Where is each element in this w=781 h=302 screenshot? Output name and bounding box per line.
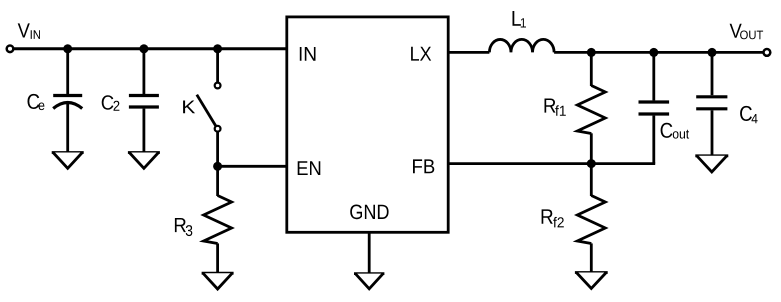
wire GND stem	[368, 232, 371, 273]
label Rf1	[545, 99, 566, 116]
wire Cout bottom	[652, 116, 655, 164]
wire LX out	[448, 51, 489, 54]
resistor Rf2	[577, 196, 605, 244]
label Cout	[661, 123, 690, 139]
wire Ce bottom	[66, 104, 69, 153]
node input-C2	[139, 44, 148, 53]
node out-Rf1	[587, 48, 596, 57]
ground C2	[128, 151, 160, 154]
capacitor C2	[129, 96, 159, 108]
wire Rf1 top	[590, 52, 593, 86]
wire K top	[216, 49, 219, 83]
wire C4 bottom	[711, 110, 714, 156]
label LX	[411, 47, 431, 61]
wire EN	[218, 165, 287, 168]
resistor R3	[204, 196, 232, 244]
label L1	[513, 11, 527, 28]
label K	[183, 101, 195, 114]
wire Rf2 bottom	[590, 243, 593, 272]
ground Rf2	[575, 271, 608, 274]
resistor Rf1	[577, 86, 605, 134]
wire output net	[554, 51, 763, 54]
label C4	[740, 106, 758, 123]
wire R3 bottom	[216, 243, 219, 273]
terminal VIN	[7, 46, 14, 53]
capacitor Ce	[53, 96, 82, 109]
label GND	[350, 205, 388, 220]
label EN	[298, 161, 321, 175]
label Ce	[28, 94, 45, 110]
node input-Ce	[63, 44, 72, 53]
label Rf2	[542, 209, 564, 227]
wire C2 top	[142, 49, 145, 94]
label VIN	[18, 23, 40, 39]
ground Ce	[52, 151, 84, 154]
label FB	[413, 159, 434, 173]
IC U1 (regulator)	[287, 17, 448, 232]
wire R3 top	[216, 166, 219, 196]
wire Rf2 top	[590, 164, 593, 196]
terminal VOUT	[764, 49, 771, 56]
label IN	[300, 47, 316, 61]
node FB-Rf2	[587, 159, 596, 168]
node EN	[213, 162, 222, 171]
wire C4 top	[711, 52, 714, 95]
label VOUT	[730, 24, 764, 40]
switch K	[197, 83, 221, 132]
inductor L1	[489, 39, 554, 52]
wire FB net	[448, 162, 655, 165]
wire Rf1 bottom	[590, 133, 593, 163]
node out-C4	[708, 48, 717, 57]
wire Cout top	[652, 52, 655, 100]
wire Ce top	[66, 49, 69, 94]
capacitor C4	[696, 97, 727, 109]
label C2	[102, 95, 120, 111]
wire C2 bottom	[142, 109, 145, 153]
ground U1	[354, 272, 384, 275]
ground R3	[202, 272, 234, 275]
label R3	[175, 218, 192, 236]
node input-K	[213, 44, 222, 53]
node out-Cout	[649, 48, 658, 57]
capacitor Cout	[639, 102, 670, 114]
wire input net	[14, 47, 287, 50]
ground C4	[695, 154, 728, 157]
wire K bottom	[216, 132, 219, 167]
